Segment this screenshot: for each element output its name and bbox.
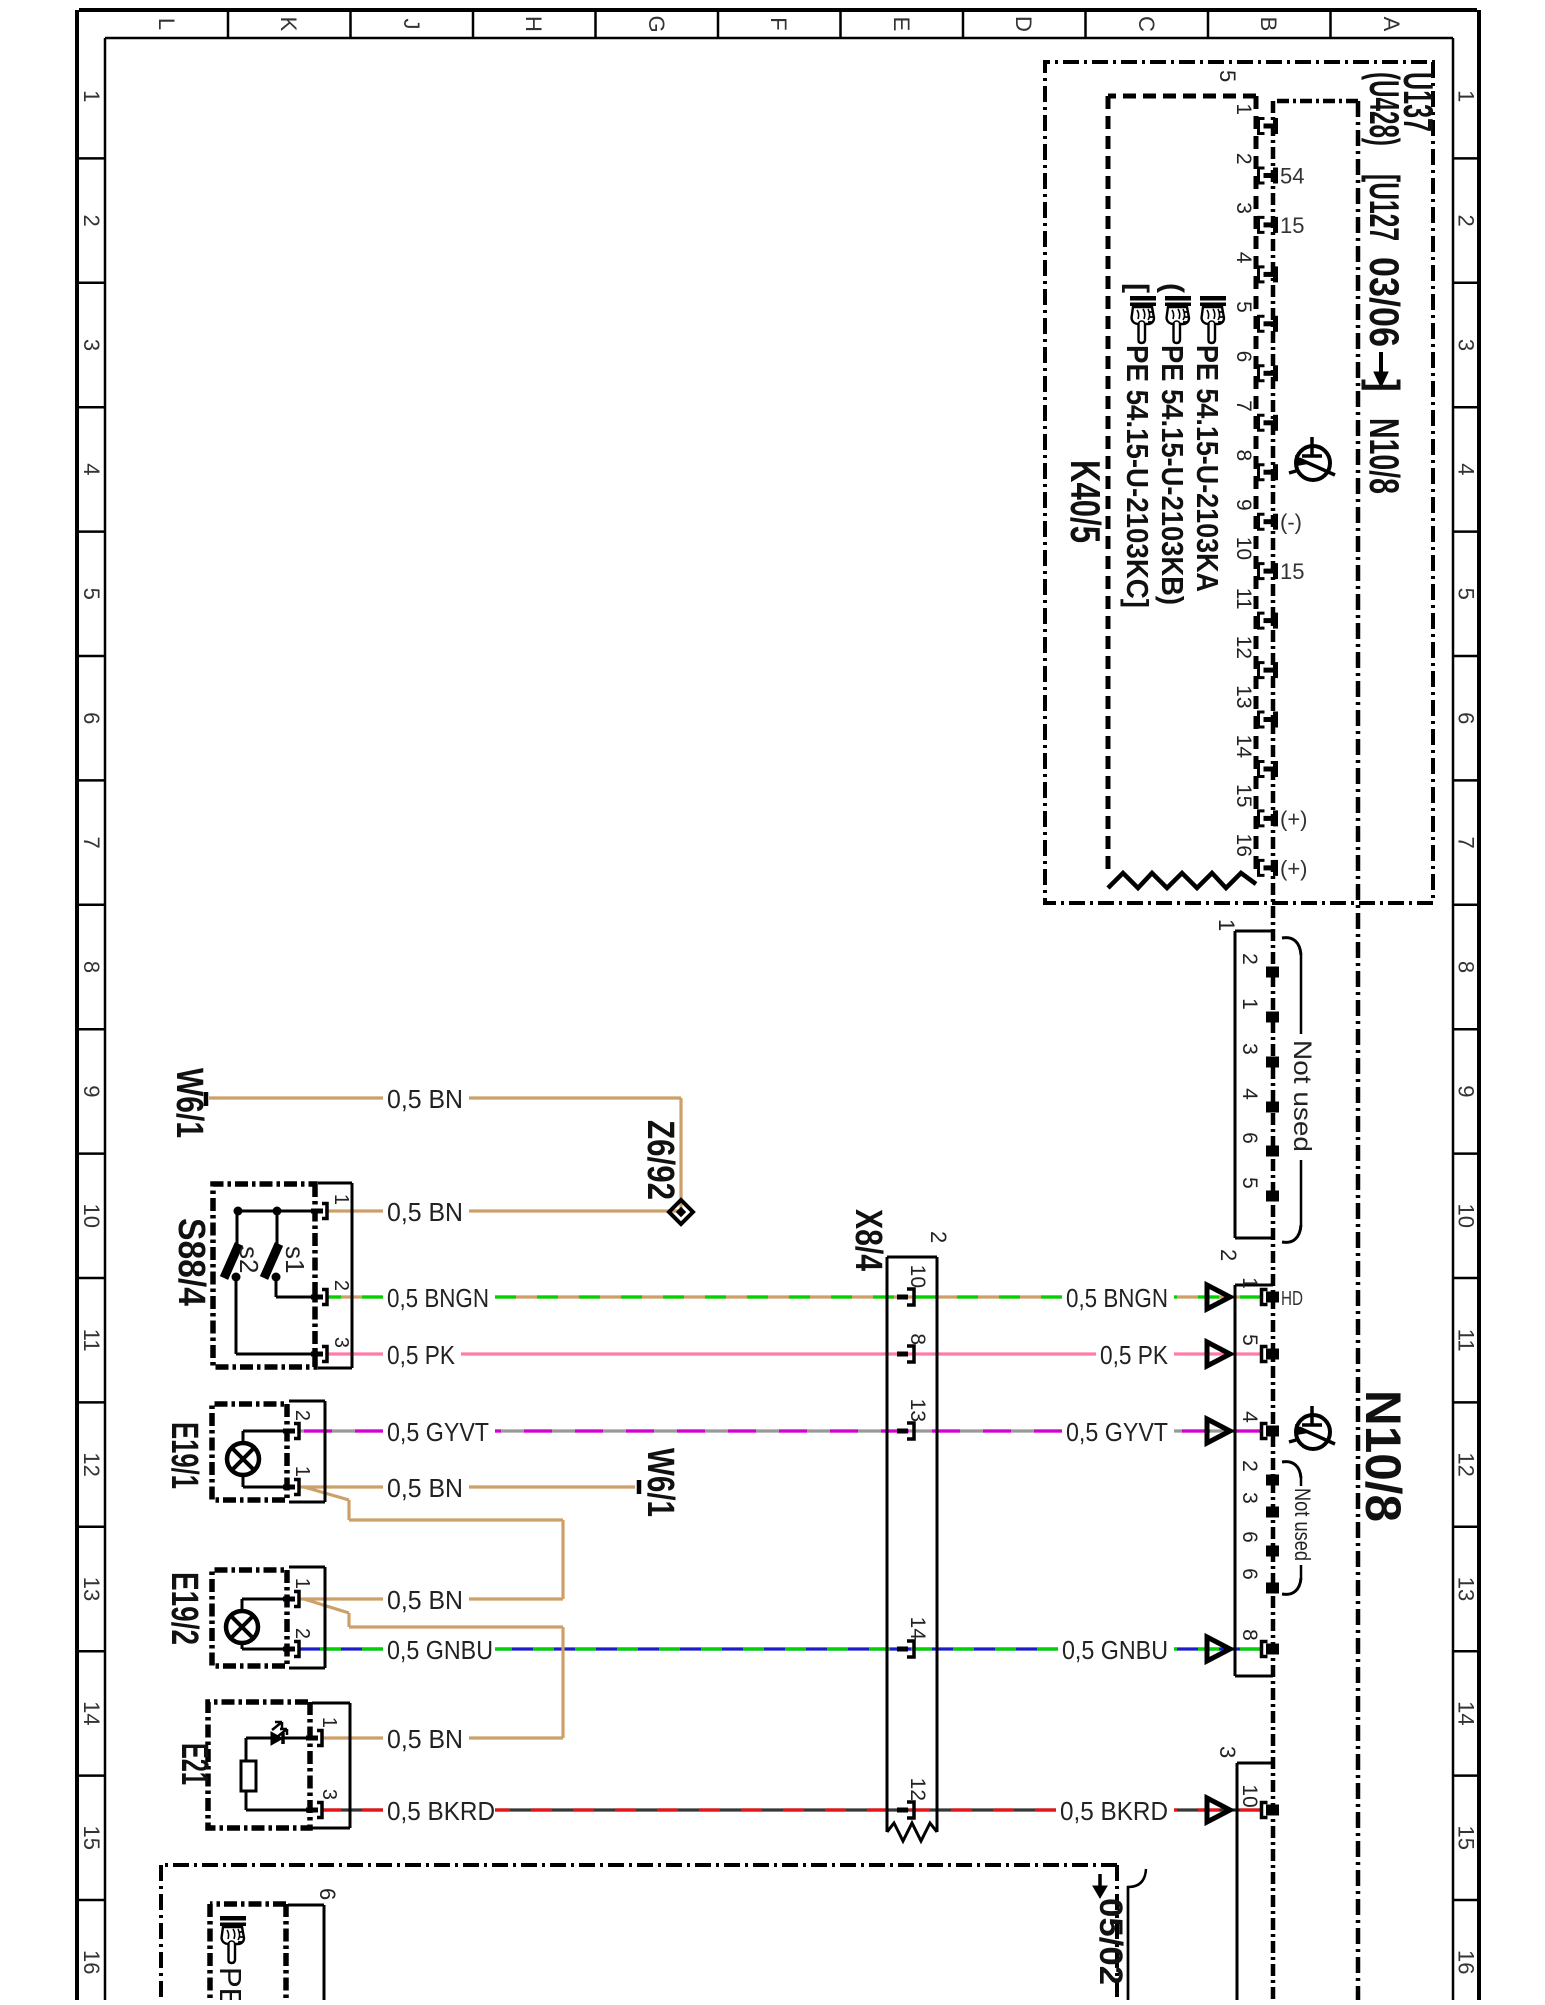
svg-text:W6/1: W6/1 (168, 1068, 210, 1138)
svg-text:16: 16 (79, 1950, 104, 1974)
svg-text:1: 1 (1232, 103, 1255, 115)
svg-text:13: 13 (1232, 685, 1255, 708)
svg-text:1: 1 (1238, 998, 1261, 1010)
svg-text:16: 16 (1232, 834, 1255, 857)
svg-text:5: 5 (1454, 588, 1479, 600)
svg-text:14: 14 (79, 1701, 104, 1725)
svg-text:1: 1 (1214, 919, 1239, 931)
svg-text:13: 13 (1454, 1577, 1479, 1601)
svg-text:0,5 BN: 0,5 BN (387, 1197, 463, 1227)
svg-text:D: D (1011, 16, 1036, 32)
svg-text:HD: HD (1281, 1288, 1303, 1310)
svg-text:2: 2 (1216, 1249, 1241, 1261)
svg-text:2: 2 (291, 1628, 313, 1639)
svg-text:11: 11 (1232, 588, 1255, 610)
svg-text:4: 4 (1238, 1411, 1261, 1423)
svg-text:0,5 PK: 0,5 PK (1100, 1340, 1169, 1370)
svg-text:3: 3 (1238, 1492, 1261, 1504)
svg-text:0,5 BKRD: 0,5 BKRD (387, 1796, 495, 1826)
svg-text:15: 15 (1454, 1826, 1479, 1850)
svg-text:H: H (521, 16, 546, 32)
svg-text:12: 12 (1454, 1452, 1479, 1476)
svg-text:2: 2 (79, 214, 104, 226)
svg-text:3: 3 (79, 339, 104, 351)
svg-text:G: G (644, 15, 669, 32)
svg-text:3: 3 (1232, 202, 1255, 214)
svg-text:Not used: Not used (1290, 1488, 1315, 1561)
svg-text:0,5 BN: 0,5 BN (387, 1084, 463, 1114)
svg-text:6: 6 (315, 1888, 340, 1900)
svg-text:8: 8 (79, 961, 104, 973)
svg-text:6: 6 (1238, 1132, 1261, 1144)
svg-text:1: 1 (291, 1578, 313, 1589)
svg-text:B: B (1256, 17, 1281, 32)
svg-text:14: 14 (1232, 735, 1255, 759)
svg-text:10: 10 (906, 1265, 929, 1288)
svg-text:8: 8 (1232, 450, 1255, 462)
svg-text:E: E (889, 17, 914, 32)
svg-text:0,5 BN: 0,5 BN (387, 1473, 463, 1503)
svg-text:14: 14 (1454, 1701, 1479, 1725)
svg-text:2: 2 (330, 1280, 352, 1291)
svg-text:3: 3 (330, 1337, 352, 1348)
svg-text:2: 2 (1238, 1460, 1261, 1472)
svg-text:0,5 GYVT: 0,5 GYVT (387, 1417, 489, 1447)
svg-text:3: 3 (1215, 1746, 1240, 1758)
svg-text:15: 15 (79, 1826, 104, 1850)
svg-text:16: 16 (1454, 1950, 1479, 1974)
svg-text:s1: s1 (280, 1246, 310, 1273)
svg-text:X8/4: X8/4 (847, 1209, 889, 1271)
svg-text:0,5 GYVT: 0,5 GYVT (1066, 1417, 1168, 1447)
svg-text:7: 7 (1232, 400, 1255, 412)
svg-text:9: 9 (79, 1085, 104, 1097)
svg-text:2: 2 (291, 1410, 313, 1421)
svg-text:10: 10 (1232, 537, 1255, 560)
svg-text:5: 5 (1238, 1334, 1261, 1346)
svg-text:15: 15 (1280, 213, 1304, 238)
svg-text:W6/1: W6/1 (639, 1448, 681, 1517)
svg-text:1: 1 (1238, 1277, 1261, 1289)
svg-text:S88/4: S88/4 (170, 1218, 212, 1306)
svg-text:PE: PE (213, 1967, 248, 2000)
svg-text:0,5 PK: 0,5 PK (387, 1340, 456, 1370)
svg-text:E19/2: E19/2 (163, 1572, 205, 1645)
svg-text:(-): (-) (1280, 510, 1302, 535)
svg-text:0,5 BNGN: 0,5 BNGN (1066, 1283, 1168, 1313)
svg-text:E19/1: E19/1 (163, 1422, 205, 1489)
svg-text:10: 10 (1454, 1204, 1479, 1228)
svg-text:6: 6 (1232, 351, 1255, 363)
svg-text:14: 14 (906, 1617, 929, 1641)
svg-text:5: 5 (1232, 301, 1255, 313)
svg-text:7: 7 (79, 836, 104, 848)
svg-text:1: 1 (318, 1717, 340, 1728)
svg-text:[U127: [U127 (1361, 174, 1408, 241)
svg-text:11: 11 (1454, 1329, 1479, 1352)
svg-text:J: J (399, 19, 424, 30)
svg-text:10: 10 (79, 1204, 104, 1228)
svg-text:E21: E21 (173, 1743, 215, 1785)
svg-text:9: 9 (1232, 499, 1255, 511)
svg-text:3: 3 (1454, 339, 1479, 351)
svg-text:0,5 GNBU: 0,5 GNBU (387, 1635, 493, 1665)
svg-text:2: 2 (1232, 153, 1255, 165)
svg-text:Z6/92: Z6/92 (639, 1120, 681, 1200)
svg-text:C: C (1134, 16, 1159, 32)
svg-text:3: 3 (318, 1789, 340, 1800)
svg-text:PE 54.15-U-2103KA: PE 54.15-U-2103KA (1190, 345, 1225, 592)
svg-text:03/06: 03/06 (1361, 257, 1408, 347)
svg-text:1: 1 (330, 1194, 352, 1205)
svg-text:2: 2 (1454, 214, 1479, 226)
svg-text:0,5 GNBU: 0,5 GNBU (1062, 1635, 1168, 1665)
svg-text:4: 4 (1232, 252, 1255, 264)
svg-text:PE 54.15-U-2103KC]: PE 54.15-U-2103KC] (1120, 345, 1155, 608)
svg-text:N10/8: N10/8 (1361, 418, 1408, 494)
svg-text:s2: s2 (234, 1246, 264, 1273)
svg-text:0,5 BNGN: 0,5 BNGN (387, 1283, 489, 1313)
svg-text:K: K (276, 17, 301, 32)
svg-text:13: 13 (79, 1577, 104, 1601)
svg-text:5: 5 (1238, 1177, 1261, 1189)
svg-text:54: 54 (1280, 164, 1304, 189)
svg-text:Not used: Not used (1288, 1040, 1316, 1152)
svg-text:L: L (154, 18, 179, 30)
svg-text:15: 15 (1280, 559, 1304, 584)
svg-text:11: 11 (79, 1329, 104, 1352)
svg-text:12: 12 (906, 1778, 929, 1801)
svg-text:[: [ (1121, 283, 1154, 293)
svg-text:4: 4 (79, 463, 104, 475)
svg-text:2: 2 (926, 1231, 951, 1243)
svg-text:(+): (+) (1280, 806, 1308, 831)
svg-text:15: 15 (1232, 784, 1255, 807)
svg-text:13: 13 (906, 1399, 929, 1422)
svg-text:0,5 BKRD: 0,5 BKRD (1060, 1796, 1168, 1826)
svg-text:6: 6 (1238, 1568, 1261, 1580)
svg-text:8: 8 (1238, 1629, 1261, 1641)
svg-text:10: 10 (1238, 1784, 1261, 1807)
svg-text:0,5 BN: 0,5 BN (387, 1585, 463, 1615)
svg-text:(U428): (U428) (1361, 72, 1408, 146)
svg-text:8: 8 (906, 1333, 929, 1345)
svg-text:05/02: 05/02 (1093, 1898, 1129, 1985)
svg-text:9: 9 (1454, 1085, 1479, 1097)
svg-text:5: 5 (1215, 70, 1240, 82)
svg-text:6: 6 (1454, 712, 1479, 724)
svg-text:2: 2 (1238, 953, 1261, 965)
svg-text:]: ] (1361, 379, 1408, 392)
svg-text:F: F (766, 17, 791, 30)
svg-text:N10/8: N10/8 (1355, 1390, 1411, 1522)
svg-text:0,5 BN: 0,5 BN (387, 1724, 463, 1754)
svg-text:4: 4 (1238, 1088, 1261, 1100)
svg-text:6: 6 (1238, 1531, 1261, 1543)
svg-text:12: 12 (1232, 636, 1255, 659)
svg-text:6: 6 (79, 712, 104, 724)
svg-text:3: 3 (1238, 1043, 1261, 1055)
svg-text:8: 8 (1454, 961, 1479, 973)
svg-text:PE 54.15-U-2103KB): PE 54.15-U-2103KB) (1155, 345, 1190, 605)
svg-text:4: 4 (1454, 463, 1479, 475)
svg-text:5: 5 (79, 588, 104, 600)
svg-text:(: ( (1156, 283, 1189, 293)
svg-text:A: A (1379, 17, 1404, 32)
svg-text:K40/5: K40/5 (1062, 460, 1109, 543)
svg-text:1: 1 (291, 1466, 313, 1477)
svg-text:1: 1 (79, 90, 104, 102)
svg-text:7: 7 (1454, 836, 1479, 848)
svg-text:12: 12 (79, 1452, 104, 1476)
svg-text:(+): (+) (1280, 856, 1308, 881)
svg-text:1: 1 (1454, 90, 1479, 102)
